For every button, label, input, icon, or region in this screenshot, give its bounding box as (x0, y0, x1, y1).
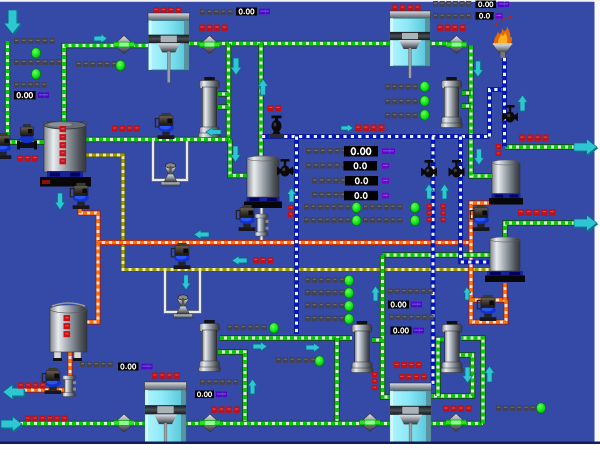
wire: vessel C drain rod (260, 207, 263, 240)
vessel C: intercooler drum (244, 156, 282, 208)
label: red vertical tag blue drop1 (427, 204, 432, 222)
label: stage3 temperature (312, 192, 346, 198)
flow arrow: up near column4 (371, 286, 380, 301)
compressor Q1: stage1 cylinder (148, 13, 190, 83)
indicator: d43 (344, 301, 353, 311)
label: stage2 temperature (312, 178, 346, 184)
label: 真空泵 (vacuum pump) (355, 125, 385, 132)
label: red vertical tag blue drop2 (441, 204, 446, 222)
wire: orange pump loop rectangle (471, 299, 506, 322)
flow arrow: stage3 suction in (big right) (1, 417, 23, 433)
wire: oil drain orange from buffer tank to junction (80, 188, 98, 243)
flow arrow: right on header1 (253, 342, 267, 351)
wire: compressor4 recirculation loop (430, 355, 473, 396)
label: oil pressure label (80, 362, 113, 368)
valve F3: stage2 discharge filter (447, 36, 467, 54)
wire: stage2 discharge drop (471, 46, 492, 177)
display: suction pressure 0.00 kPa (14, 91, 49, 99)
vessel B: receiver drum (485, 237, 525, 282)
label: 三回 tag (253, 257, 273, 263)
label: 一回 tag above needle valve (268, 105, 281, 111)
label: 二段排气 (stage2 exhaust) (437, 25, 466, 31)
pump P0: left edge pump (0, 133, 11, 159)
wire: oil collector legs (56, 352, 59, 360)
indicator: suction pressure high (31, 69, 40, 79)
label: stage2 return row1 (385, 84, 418, 90)
valve F8: stage4 discharge filter (446, 414, 466, 432)
filter under vessel C (255, 214, 269, 236)
compressor Q2: stage2 cylinder (390, 11, 431, 78)
display: stage3 0.00 kPa (195, 391, 227, 399)
flow arrow: up on blue drop2 (440, 184, 449, 199)
label: 三段排气 (211, 407, 240, 413)
display: system pressure 0.00 MPa (344, 146, 395, 157)
flow arrow: up center blue (287, 188, 296, 202)
wire: blue drop to compressor4 (431, 137, 436, 386)
wire: compressor discharge line to right edge (505, 223, 575, 237)
pump P2: under vessel C (236, 205, 255, 231)
indicator: bottom right (536, 403, 545, 413)
label: 回气缓冲罐 on tank (60, 126, 67, 164)
wire: blue riser to flare branch (490, 90, 505, 137)
label: 集油器 on oil collector (64, 315, 71, 337)
wire: column5 left port drop (438, 340, 444, 397)
wire: blue drop to vessel B (461, 137, 490, 263)
wire: green riser stage4 suction (383, 255, 391, 397)
wire: oil collector legs right (75, 352, 78, 360)
compressor Q3: stage3 cylinder (145, 382, 187, 450)
indicator: stage2 row3 (420, 110, 429, 120)
label: red row above compressor4 a (394, 362, 422, 368)
flow arrow: up at orange riser (463, 287, 471, 300)
label: 二段 red vertical near blue drop (288, 205, 294, 217)
right screen margin (595, 0, 600, 450)
wire: stage1 suction main green (148, 41, 466, 46)
indicator: level row1 right (410, 202, 419, 212)
valve F5: stage3 suction filter (114, 414, 134, 432)
valve V5: flare line ball valve (502, 105, 518, 123)
label: 进气阀 (inlet valve) (17, 155, 38, 161)
wire: column4 right stub (372, 337, 383, 342)
wire: blue drop center (294, 137, 299, 335)
flow arrow: compressor exhaust out (big right) (574, 215, 598, 232)
label: right panel row2 (389, 315, 434, 321)
flow arrow: down at column1 (231, 58, 242, 75)
flow arrow: left under column1 (206, 128, 221, 137)
label: red row above compressor4 b (399, 374, 427, 380)
pump P1: on buffer outlet header (155, 113, 174, 139)
label: 去蒸发器 (18, 383, 46, 389)
label: level alarm row1 right (363, 204, 403, 210)
label: suction pressure high alarm (14, 59, 62, 65)
display: temp2 0.0 C (345, 176, 389, 186)
label: bottom right status (496, 405, 536, 411)
flow arrow: up at column3 drop (248, 379, 257, 394)
pump P4: oil collector outlet pump (42, 368, 61, 394)
wire: orange stub vessel B bottom (503, 283, 508, 300)
label: four dots row2 (305, 290, 345, 296)
flow arrow: down right of stage2 (473, 61, 483, 77)
indicator: level row1 left (352, 202, 361, 212)
valve F6: stage3 discharge filter (200, 414, 220, 432)
pump P3: oil drain pump under tank (70, 183, 89, 209)
label: level alarm row1 left (304, 204, 350, 210)
flow arrow: down at vessel C elbow (231, 146, 241, 162)
label: 四段排气 (443, 406, 472, 412)
valve V7: ball valve on blue drop2 (449, 160, 465, 178)
label: stage1 discharge pressure (200, 9, 233, 15)
indicator: d44 (344, 314, 353, 324)
label: 一段排气 (stage1 exhaust) (199, 25, 228, 31)
display: stage2 discharge 0.00 kPa (476, 1, 510, 9)
flow arrow: down to oil collector (55, 193, 65, 210)
valve F7: stage4 suction filter (360, 414, 380, 432)
flow arrow: right on header2 (306, 343, 320, 352)
wire: oil collector outlet orange (22, 352, 70, 390)
label: level alarm row2 left (304, 217, 350, 223)
label: motor insulation alarm (76, 61, 117, 67)
label: right panel row1 (388, 289, 433, 295)
label: above column3 status (227, 325, 267, 331)
label: 四段吸气 vertical red (372, 372, 377, 390)
wire: suction inlet green drop (8, 41, 45, 142)
wire: orange main header (98, 240, 471, 245)
label: stage2 return row3 (385, 113, 418, 119)
indicator: above column3 (269, 323, 278, 333)
indicator: d41 (344, 275, 353, 285)
heat exchanger column E4 (351, 321, 373, 373)
wire: bypass loop on yellow line (165, 271, 200, 312)
wire: column2 right stub lower (462, 103, 471, 108)
flow arrow: to vacuum pump (341, 124, 353, 132)
valve F2: stage1 discharge filter (200, 36, 220, 54)
label: four dots row3 (305, 303, 345, 309)
display: pressure 0.00 kPa (r1) (388, 301, 422, 309)
pump P6: oil return pump in loop (477, 295, 496, 321)
wire: stage2 exhaust line to right edge (505, 144, 575, 149)
tank T2: oil collector (50, 303, 87, 361)
wire: orange riser at condenser A (471, 203, 491, 300)
display: temp1 0.0 C (344, 161, 390, 171)
wire: green header to vessel B (383, 252, 492, 257)
label: stage2 return row2 (385, 99, 425, 105)
label: four dots row1 (305, 277, 345, 283)
valve F1: stage1 suction filter (114, 36, 134, 54)
flow arrow: to stage1 (right) (94, 34, 107, 43)
valve V6: ball valve on blue drop1 (421, 160, 437, 178)
flare stack with flame (493, 16, 513, 58)
wire: stage3/4 bottom suction main (2, 421, 483, 426)
indicator: stage2 row2 (420, 96, 429, 106)
valve V3: needle valve on vacuum header (270, 116, 284, 139)
label: 三段气缸 (152, 373, 180, 379)
flow arrow: to evaporator (big left) (3, 385, 25, 401)
label: 压缩机排气 (518, 209, 555, 216)
wire: green drop to vessel C top (258, 44, 263, 157)
wire: bypass loop at buffer outlet (153, 141, 187, 180)
flow arrow: left below vessel C (194, 230, 209, 239)
wire: buffer tank outlet green header (85, 137, 230, 142)
wire: vacuum blue main header (262, 134, 490, 139)
wire: column2 right stub upper (462, 90, 471, 95)
bottom screen margin (0, 442, 600, 450)
indicator: d42 (344, 288, 353, 298)
top screen margin (0, 0, 600, 2)
valve V8: yellow bypass globe valve (174, 295, 193, 318)
tank T1: suction buffer tank (40, 121, 91, 187)
vessel A: condenser drum (489, 160, 523, 205)
flow arrow: up near flare (518, 95, 528, 111)
wire: drop from header to bottom main (334, 338, 339, 424)
heat exchanger column E1 (199, 77, 221, 138)
flow arrow: system inlet (big down) (4, 10, 22, 35)
wire: green drop to exchanger column1 (226, 44, 231, 140)
label: stage2 discharge pressure (433, 1, 471, 7)
heat exchanger column E3 (199, 320, 221, 372)
compressor Q4: stage4 cylinder (390, 383, 432, 450)
label: stage2 discharge temperature (433, 13, 471, 19)
label: four dots row4 (305, 316, 345, 322)
indicator: suction pressure low (31, 48, 40, 58)
flow arrow: down into condenser A (474, 149, 484, 165)
wire: flare stack blue line (502, 58, 507, 147)
label: 压缩机三段吸气 (25, 416, 67, 422)
flow arrow: up on blue drop1 (425, 184, 434, 199)
valve V4: vessel C outlet ball valve (277, 159, 293, 177)
label: suction pressure low alarm (14, 38, 55, 44)
label: 一回阀 red tag (112, 126, 140, 132)
label: system pressure (306, 148, 347, 154)
flow arrow: up in riser to column5 (485, 366, 495, 382)
heat exchanger column E2 (441, 77, 463, 128)
label: stage3 pressure (200, 379, 238, 385)
flow arrow: down in recirculation loop (463, 367, 473, 383)
valve V1: suction control valve (17, 124, 37, 150)
valve V2: bypass globe valve (161, 163, 180, 186)
display: temp3 0.0 C (344, 191, 389, 201)
wire: column3 top port long header (220, 335, 352, 340)
heat exchanger column E5 (441, 321, 463, 373)
indicator: level row2 right (410, 215, 419, 225)
wire: green riser into buffer tank top (64, 46, 148, 123)
indicator: motor insulation (116, 60, 125, 70)
label: 二段气缸 (stage2 cylinder) (392, 5, 421, 11)
wire: column1 right stub lower (218, 104, 229, 109)
wire: column1 right stubs (218, 91, 229, 96)
label: suction pressure (14, 82, 47, 88)
label: stage1 temperature (306, 163, 347, 169)
display: pressure 0.00 kPa (r2) (391, 327, 425, 335)
flow arrow: left on orange header (232, 256, 247, 265)
pump P7: on yellow liquid line (171, 243, 190, 269)
flow arrow: stage2 exhaust out (big right) (574, 139, 598, 156)
wire: blue stub vessel C ball valve (275, 169, 297, 174)
flow arrow: down inside yellow bypass loop (182, 275, 191, 290)
wire: liquid-supply yellow main from buffer tank (85, 155, 491, 270)
flow arrow: up on vessel C feed (258, 79, 268, 95)
label: mid status row (276, 357, 316, 363)
indicator: mid row (315, 356, 324, 366)
indicator: level row2 left (352, 215, 361, 225)
label: 二段排气 (stage2 out) (519, 135, 549, 142)
pump P5: orange transfer pump (470, 205, 489, 231)
display: stage1 discharge 0.00 kPa (236, 8, 270, 16)
wire: orange down to oil collector (86, 243, 98, 323)
label: level alarm row2 right (363, 217, 403, 223)
display: stage2 temperature 0.0 C (476, 12, 503, 20)
label: 一段气缸 (stage1 cylinder) (153, 7, 182, 13)
wire: riser to column5 (461, 338, 483, 424)
wire: column3 lower port drop (218, 352, 245, 424)
indicator: stage2 row1 (420, 82, 429, 92)
label: 二段 red vertical at flare line (496, 144, 502, 156)
wire: green elbow into vessel C left (230, 140, 247, 176)
fitting at oil collector outlet (63, 376, 77, 397)
display: oil pressure 0.00 (118, 363, 153, 371)
